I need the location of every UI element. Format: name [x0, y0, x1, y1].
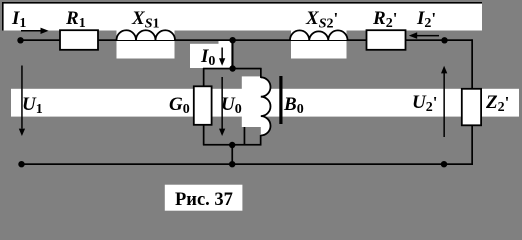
- voltage arrow U0 (down): [219, 77, 225, 136]
- top label band (white box with top/left black border): [3, 3, 482, 31]
- G0 branch upper wire: [203, 68, 205, 87]
- caption white box: [165, 185, 243, 211]
- resistor R1: [60, 30, 98, 50]
- voltage arrow U1 (down): [19, 66, 25, 137]
- core bar B0: [279, 76, 282, 124]
- node dot top rail at shunt branch: [229, 37, 235, 43]
- inductor B0 coil (3 humps bulging right): [261, 77, 271, 135]
- node dot left bottom terminal: [18, 161, 24, 167]
- inductor XS1 (3 humps): [117, 30, 176, 40]
- resistor R2': [367, 30, 406, 50]
- svg-text:R2': R2': [372, 8, 397, 31]
- white box under coil XS2': [291, 30, 347, 59]
- right vertical wire from top rail to Z2': [471, 39, 473, 89]
- current arrow I0 (down): [219, 48, 225, 66]
- coil box corner segment: [244, 127, 246, 145]
- top rail wire (left node to right corner): [20, 39, 473, 41]
- middle label band: [11, 89, 519, 117]
- white notch right of I0 box: [219, 41, 232, 46]
- shunt branch vertical wire from top rail: [232, 40, 234, 69]
- magnetizing branch bottom stub wire: [260, 135, 262, 145]
- node dot bottom rail at shunt: [229, 161, 235, 167]
- white box behind magnetizing coil: [242, 76, 261, 127]
- shunt branch wire to bottom rail: [231, 145, 233, 164]
- node dot shunt split: [229, 65, 235, 71]
- band border left: [2, 2, 4, 31]
- voltage arrow U2' (up): [441, 66, 447, 137]
- inductor XS2' (3 humps): [290, 30, 348, 40]
- node dot top rail at U2': [441, 37, 447, 43]
- current arrow I2' (pointing left): [409, 32, 439, 39]
- current arrow I1: [21, 28, 49, 34]
- svg-text:Рис. 37: Рис. 37: [175, 190, 233, 210]
- node dot bottom bus: [229, 142, 235, 148]
- svg-text:Z2': Z2': [485, 92, 509, 115]
- resistor G0: [194, 86, 212, 125]
- white box under coil XS1: [117, 30, 175, 59]
- svg-text:U2': U2': [412, 92, 437, 115]
- shunt bottom bus wire: [203, 144, 262, 146]
- white box I0 label: [190, 44, 231, 68]
- G0 branch lower wire: [203, 125, 205, 146]
- load Z2': [462, 89, 481, 126]
- wire Z2' bottom to bottom rail: [471, 125, 473, 165]
- node dot bottom rail at U2': [441, 161, 447, 167]
- band border top: [2, 2, 482, 4]
- node dot left top terminal: [17, 37, 23, 43]
- shunt top bus wire: [203, 68, 262, 70]
- bottom rail wire: [21, 163, 473, 165]
- magnetizing branch top stub wire: [260, 68, 262, 78]
